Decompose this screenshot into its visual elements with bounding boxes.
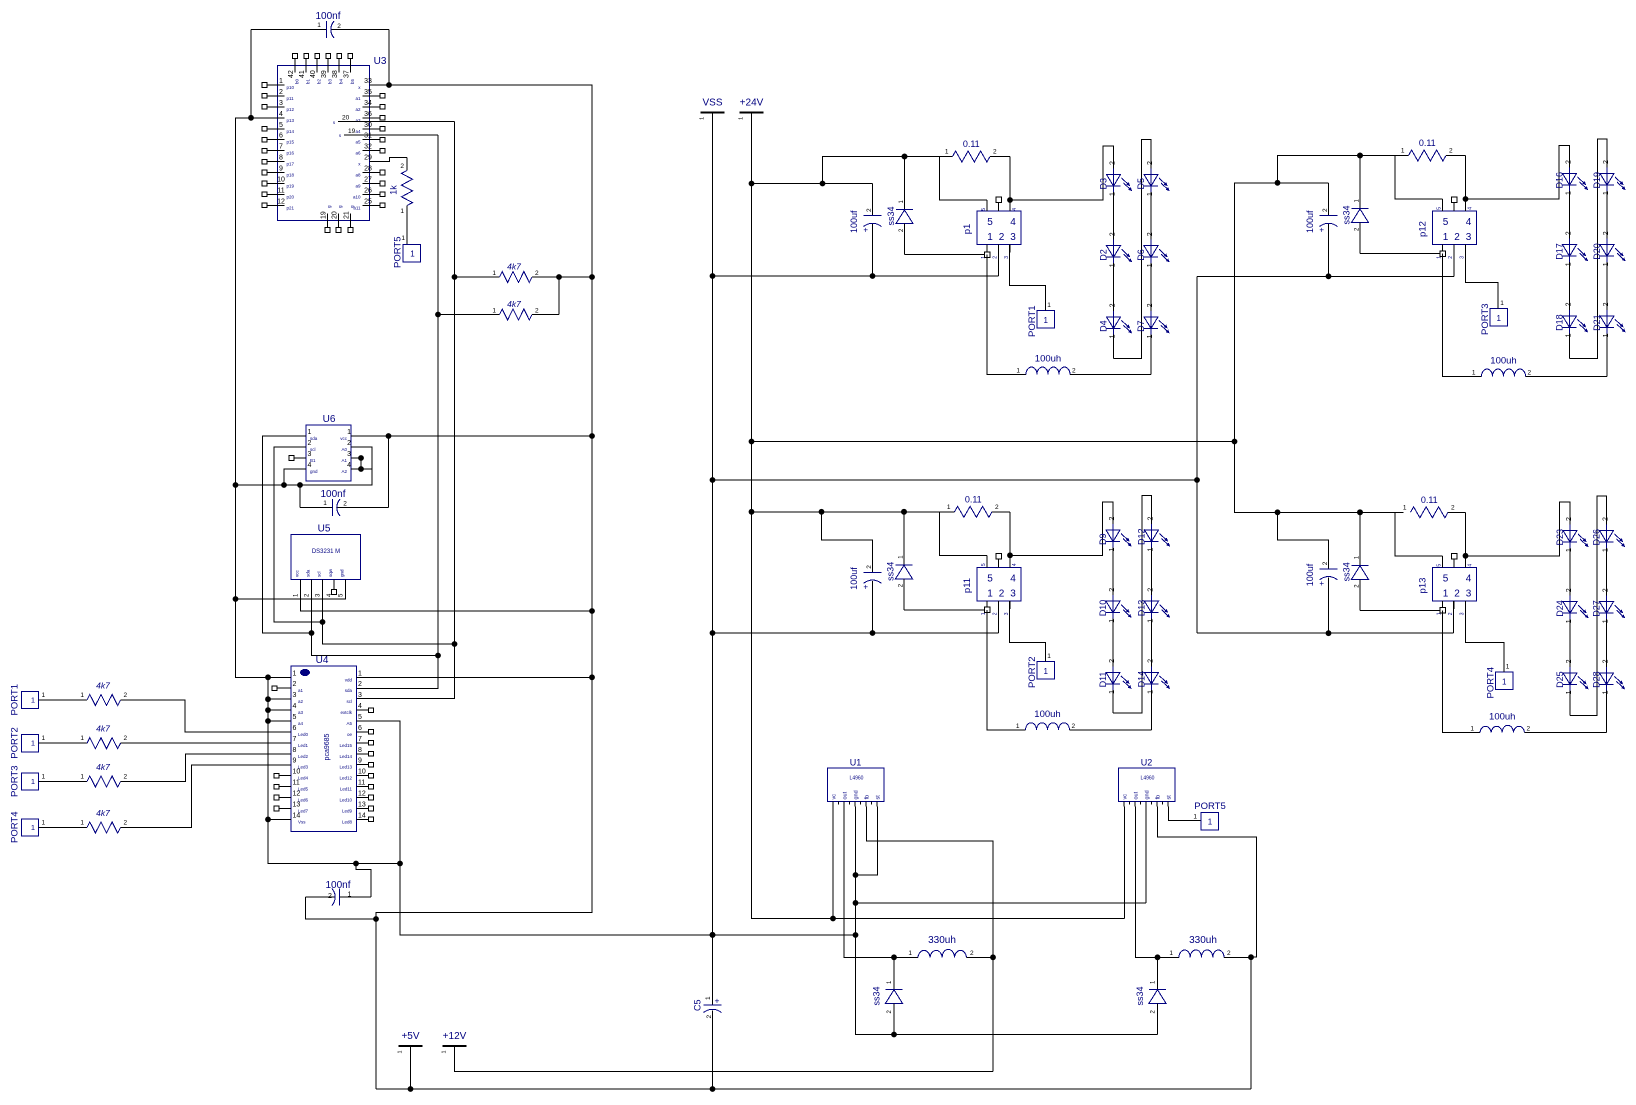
wire 0.11 output to pin4 node (p11) <box>1009 512 1011 556</box>
junction <box>710 1086 716 1092</box>
junction <box>853 932 859 938</box>
junction <box>710 932 716 938</box>
svg-text:D7: D7 <box>1136 320 1146 332</box>
junction <box>589 274 595 280</box>
p12 nc pin top <box>1453 203 1455 212</box>
svg-text:100uh: 100uh <box>1489 712 1515 723</box>
svg-text:1: 1 <box>1109 619 1116 623</box>
svg-text:D5: D5 <box>1136 178 1146 190</box>
svg-text:1: 1 <box>1147 334 1154 338</box>
inductor 330uh (U2) <box>1179 950 1224 957</box>
svg-text:ss34: ss34 <box>872 986 882 1005</box>
wire U3 pin4 / VSS-left vertical <box>236 118 278 678</box>
svg-text:Led12: Led12 <box>339 776 352 781</box>
wire U2 pin4 output <box>1158 807 1257 1090</box>
svg-text:1: 1 <box>1603 619 1610 623</box>
LED D18 <box>1569 310 1571 334</box>
p13 pin3 bottom stub <box>1465 601 1467 609</box>
svg-text:D6: D6 <box>1136 249 1146 261</box>
U4 pin 12 stub <box>279 797 291 799</box>
svg-text:1: 1 <box>1603 690 1610 694</box>
resistor 4k7 (PORT3) <box>87 776 121 787</box>
LED D21 <box>1606 310 1608 334</box>
svg-text:1: 1 <box>1193 814 1197 821</box>
U3 pin 12 <box>268 204 285 206</box>
junction <box>1194 477 1200 483</box>
regulator U1 box <box>828 768 885 802</box>
LED D6 <box>1150 240 1152 264</box>
svg-text:D28: D28 <box>1592 671 1602 688</box>
p1 pin4 top stub <box>1009 200 1011 211</box>
svg-text:fb: fb <box>1156 795 1162 800</box>
svg-text:2: 2 <box>706 1015 713 1019</box>
junction <box>265 674 271 680</box>
svg-text:a9: a9 <box>355 184 361 189</box>
U3 pin 4 <box>278 117 285 119</box>
U3 pin 40 <box>316 59 318 73</box>
svg-text:1: 1 <box>317 22 321 29</box>
svg-text:ss34: ss34 <box>1135 986 1145 1005</box>
port PORT1 (p1) <box>1037 311 1055 329</box>
svg-text:D11: D11 <box>1098 672 1108 688</box>
svg-text:1: 1 <box>1109 548 1116 552</box>
wire pin4 node to LED column1 (p13) <box>1466 502 1571 716</box>
U3 pin 39 <box>327 59 329 73</box>
junction <box>435 312 441 318</box>
U3 pin 9 <box>268 172 285 174</box>
svg-text:p13: p13 <box>287 118 295 123</box>
svg-text:out: out <box>1134 791 1140 799</box>
LED D26 <box>1606 525 1608 549</box>
svg-text:D21: D21 <box>1592 314 1602 331</box>
wire VSS vertical <box>712 112 714 998</box>
port PORT3 <box>22 773 39 790</box>
U4 pin 20 stub <box>357 764 369 766</box>
wire pin5 branch (p13) <box>1395 512 1443 556</box>
wire VSS line block3 <box>713 632 999 634</box>
svg-text:2: 2 <box>1603 517 1610 521</box>
svg-text:2: 2 <box>970 950 974 957</box>
U3 pin 25 <box>363 204 380 206</box>
svg-text:PORT1: PORT1 <box>10 684 21 716</box>
resistor 4k7 (PORT2) <box>87 738 121 749</box>
U3 pin 26 <box>363 193 380 195</box>
svg-text:+: + <box>863 582 868 591</box>
wire +24V feed block2 riser <box>1235 183 1329 442</box>
svg-text:2: 2 <box>995 504 999 511</box>
svg-text:PORT5: PORT5 <box>393 236 404 268</box>
svg-text:2: 2 <box>1566 588 1573 592</box>
svg-text:+: + <box>715 996 720 1006</box>
wire U2 pin3 gnd <box>1145 807 1147 903</box>
svg-text:1: 1 <box>410 250 415 259</box>
svg-text:10: 10 <box>293 769 301 776</box>
U4 pin 11 stub <box>279 786 291 788</box>
wire LED col1 bottom to col2 top (p1) <box>1114 140 1152 375</box>
capacitor 100nf (U4 bypass) <box>306 896 335 898</box>
svg-text:1: 1 <box>442 1050 448 1053</box>
wire ss34 to p1 pin1 <box>905 254 988 256</box>
U1 pin 3 <box>854 802 856 807</box>
p11 pin5 top stub <box>986 555 988 567</box>
svg-text:1: 1 <box>80 820 84 827</box>
svg-text:a8: a8 <box>355 173 361 178</box>
svg-text:p15: p15 <box>287 140 295 145</box>
svg-text:p21: p21 <box>287 205 295 210</box>
svg-text:3: 3 <box>1010 232 1016 243</box>
wire U6 pins A1-A2 tie <box>351 457 361 459</box>
svg-text:19: 19 <box>321 211 328 219</box>
svg-text:1: 1 <box>1208 818 1213 827</box>
junction <box>710 477 716 483</box>
svg-text:100nf: 100nf <box>320 489 345 500</box>
svg-text:D16: D16 <box>1555 172 1565 189</box>
capacitor 100nf (U3 bypass) <box>251 29 327 31</box>
svg-text:20: 20 <box>342 115 350 122</box>
svg-text:100uf: 100uf <box>849 567 859 590</box>
p11 pin2 bottom stub <box>998 601 1000 609</box>
svg-text:3: 3 <box>347 451 351 458</box>
svg-text:32: 32 <box>364 144 372 151</box>
svg-text:a5: a5 <box>355 140 361 145</box>
svg-text:2: 2 <box>1566 517 1573 521</box>
svg-text:D17: D17 <box>1555 243 1565 260</box>
svg-text:9: 9 <box>358 758 362 765</box>
wire U5 pin3 scl <box>323 585 455 645</box>
svg-text:100uh: 100uh <box>1035 353 1061 364</box>
svg-text:U1: U1 <box>850 758 862 768</box>
wire U6 ground rail <box>236 447 373 485</box>
svg-text:1: 1 <box>1566 262 1573 266</box>
junction <box>901 509 907 515</box>
svg-text:1: 1 <box>739 117 745 120</box>
U5 pin 4 <box>333 580 335 585</box>
svg-text:2: 2 <box>328 893 332 900</box>
svg-text:3: 3 <box>293 692 297 699</box>
junction <box>1007 197 1013 203</box>
svg-text:p14: p14 <box>287 129 295 134</box>
svg-text:1: 1 <box>1603 191 1610 195</box>
svg-text:1: 1 <box>1043 316 1048 325</box>
junction <box>902 154 908 160</box>
svg-text:1: 1 <box>1603 262 1610 266</box>
wire p12 pin1 to inductor <box>1443 254 1482 377</box>
svg-text:p10: p10 <box>287 85 295 90</box>
svg-text:+: + <box>863 226 868 235</box>
inductor 330uh (U1) <box>918 949 967 957</box>
wire pin5 branch (p1) <box>940 157 988 201</box>
svg-text:2: 2 <box>358 681 362 688</box>
p13 nc pin top <box>1453 559 1455 568</box>
wire U4 pin5 <box>268 720 291 722</box>
svg-text:1: 1 <box>1506 664 1510 671</box>
LED D28 <box>1606 667 1608 691</box>
wire pin4 node to LED column1 (p1) <box>1010 146 1114 359</box>
junction <box>710 630 716 636</box>
svg-text:PORT5: PORT5 <box>1194 801 1226 812</box>
svg-text:2: 2 <box>1603 231 1610 235</box>
wire p12 pin3 to PORT3 <box>1466 245 1499 309</box>
wire U4 pin3 <box>268 698 291 700</box>
U4 pin 15 stub <box>357 818 369 820</box>
wire 4k7 to U4 led input 3 <box>121 765 292 828</box>
port PORT4 <box>22 819 39 836</box>
wire ss34 to p11 pin1 <box>904 609 987 611</box>
U1 pin 1 <box>832 802 834 807</box>
junction <box>589 433 595 439</box>
svg-text:1k: 1k <box>389 185 399 195</box>
svg-text:14: 14 <box>293 812 301 819</box>
U4 pin 22 stub <box>357 742 369 744</box>
svg-text:5: 5 <box>279 122 283 129</box>
wire p11 pin3 to PORT2 <box>1010 601 1046 662</box>
svg-text:Led2: Led2 <box>298 754 309 759</box>
svg-text:2: 2 <box>1322 561 1329 565</box>
wire p1 pin2 to VSS <box>998 245 1000 277</box>
svg-text:Led14: Led14 <box>339 754 352 759</box>
svg-text:40: 40 <box>310 70 317 78</box>
svg-text:U2: U2 <box>1141 758 1153 768</box>
svg-text:7: 7 <box>358 736 362 743</box>
svg-text:extclk: extclk <box>340 710 352 715</box>
svg-text:ss34: ss34 <box>886 562 896 581</box>
svg-text:5: 5 <box>1437 207 1443 210</box>
junction <box>397 861 403 867</box>
svg-text:5: 5 <box>981 563 987 566</box>
svg-text:2: 2 <box>337 23 341 30</box>
svg-text:2: 2 <box>1603 588 1610 592</box>
U3 pin 42 <box>294 59 296 73</box>
p1 pin3 bottom stub <box>1009 245 1011 253</box>
svg-text:10: 10 <box>277 177 285 184</box>
junction <box>853 900 859 906</box>
svg-text:1: 1 <box>31 739 35 748</box>
svg-text:4k7: 4k7 <box>507 299 521 309</box>
resistor 4k7 (SCL pullup) <box>455 276 500 278</box>
svg-text:35: 35 <box>364 89 372 96</box>
wire U6 pin4 gnd <box>284 469 306 485</box>
svg-text:4k7: 4k7 <box>96 808 110 818</box>
diode ss34 (U1) <box>893 957 895 989</box>
svg-text:PORT4: PORT4 <box>1486 667 1497 699</box>
svg-text:D14: D14 <box>1137 671 1147 688</box>
wire inductor return (p1) <box>1070 373 1151 375</box>
svg-text:1: 1 <box>1566 333 1573 337</box>
svg-text:2: 2 <box>535 270 539 277</box>
svg-text:7: 7 <box>279 144 283 151</box>
U2 pin 5 <box>1167 802 1169 807</box>
svg-text:2: 2 <box>308 440 312 447</box>
svg-text:3: 3 <box>1466 232 1472 243</box>
U3 pin 35 <box>363 95 380 97</box>
U2 pin 1 <box>1123 802 1125 807</box>
svg-text:p20: p20 <box>287 194 295 199</box>
U3 pin 21 (bottom) <box>350 214 352 228</box>
junction <box>320 619 326 625</box>
U5 pin4 stub <box>333 580 335 590</box>
capacitor 100uf (block4) <box>1278 512 1329 569</box>
svg-text:1: 1 <box>1148 690 1155 694</box>
wire PORT2 to 4k7 <box>39 742 88 744</box>
svg-text:2: 2 <box>1322 208 1329 212</box>
U3 pin 8 <box>268 161 285 163</box>
wire U4 pin4 <box>268 709 291 711</box>
svg-text:1: 1 <box>31 823 35 832</box>
p1 nc pin top <box>998 203 1000 212</box>
svg-text:1: 1 <box>80 774 84 781</box>
svg-text:19: 19 <box>348 128 356 135</box>
svg-text:A5: A5 <box>346 721 352 726</box>
svg-text:1: 1 <box>1566 690 1573 694</box>
svg-text:5: 5 <box>1443 217 1449 228</box>
wire VSS line block1 <box>713 275 999 277</box>
svg-text:1: 1 <box>31 696 35 705</box>
svg-text:a2: a2 <box>298 699 304 704</box>
U3 pin 31 <box>363 139 380 141</box>
svg-text:1: 1 <box>947 504 951 511</box>
svg-text:1: 1 <box>1148 619 1155 623</box>
U3 pin 32 <box>363 150 380 152</box>
svg-text:2: 2 <box>1454 589 1460 600</box>
svg-text:1: 1 <box>279 78 283 85</box>
svg-text:2: 2 <box>1148 588 1155 592</box>
svg-text:4: 4 <box>347 462 351 469</box>
svg-text:b5: b5 <box>350 78 355 84</box>
LED D5 <box>1150 169 1152 193</box>
svg-text:6: 6 <box>279 133 283 140</box>
svg-text:a2: a2 <box>355 107 361 112</box>
resistor 4k7 (SDA pullup) <box>438 314 500 316</box>
svg-text:1: 1 <box>1470 726 1474 733</box>
junction <box>281 482 287 488</box>
svg-text:4k7: 4k7 <box>96 724 110 734</box>
svg-text:a6: a6 <box>355 151 361 156</box>
svg-text:st: st <box>1167 795 1173 800</box>
svg-text:2: 2 <box>1072 723 1076 730</box>
U5 pin 5 <box>345 580 347 585</box>
junction <box>1275 509 1281 515</box>
junction <box>1232 439 1238 445</box>
svg-text:6: 6 <box>358 725 362 732</box>
wire p12 pin2 to VSS <box>1453 245 1455 277</box>
svg-text:+24V: +24V <box>740 97 764 108</box>
svg-text:1: 1 <box>1043 667 1048 676</box>
wire U6 pin2 scl <box>274 447 323 622</box>
port PORT3 (p12) <box>1490 309 1508 327</box>
wire VSS line block2 <box>1197 275 1454 277</box>
wire +24V feed block4 riser <box>1235 442 1404 513</box>
svg-text:100uf: 100uf <box>1305 563 1315 586</box>
wire 100nf-2 to U6 vcc <box>388 436 390 508</box>
svg-text:+5V: +5V <box>401 1031 419 1042</box>
svg-text:34: 34 <box>364 100 372 107</box>
svg-text:2: 2 <box>1148 659 1155 663</box>
svg-text:9: 9 <box>293 758 297 765</box>
U4 pin 23 stub <box>357 731 369 733</box>
svg-text:2: 2 <box>1527 726 1531 733</box>
svg-text:+: + <box>1319 226 1324 235</box>
svg-text:42: 42 <box>288 70 295 78</box>
junction <box>901 509 907 515</box>
svg-text:U4: U4 <box>316 655 329 666</box>
svg-text:3: 3 <box>1460 612 1466 615</box>
junction <box>710 932 716 938</box>
LED D10 <box>1112 595 1114 619</box>
svg-text:13: 13 <box>293 802 301 809</box>
wire pin5 branch (p11) <box>940 512 988 556</box>
wire U1 pin4 output <box>867 807 994 1072</box>
svg-text:p12: p12 <box>287 107 295 112</box>
svg-text:25: 25 <box>364 198 372 205</box>
svg-text:2: 2 <box>343 501 347 508</box>
svg-text:20: 20 <box>332 211 339 219</box>
junction <box>233 482 239 488</box>
U4 pin 16 stub <box>357 808 369 810</box>
p13 pin4 top stub <box>1465 556 1467 568</box>
svg-text:D26: D26 <box>1592 529 1602 546</box>
svg-text:1: 1 <box>1603 333 1610 337</box>
U3 pin 34 <box>363 106 380 108</box>
svg-text:b4: b4 <box>339 78 344 84</box>
svg-text:U6: U6 <box>323 414 336 425</box>
U6 io-expander box <box>306 425 351 481</box>
svg-text:2: 2 <box>1603 160 1610 164</box>
svg-text:1: 1 <box>31 777 35 786</box>
svg-text:1: 1 <box>1148 548 1155 552</box>
wire LED col1 bottom to col2 top (p13) <box>1570 496 1607 733</box>
svg-text:scl: scl <box>347 699 353 704</box>
svg-text:100uh: 100uh <box>1490 355 1516 366</box>
svg-text:3: 3 <box>1460 256 1466 259</box>
svg-text:Led10: Led10 <box>339 798 352 803</box>
wire 0.11 output to pin4 node (p1) <box>1009 157 1011 201</box>
svg-text:2: 2 <box>1603 302 1610 306</box>
U3 pin 19 wire (SDA) <box>344 134 438 136</box>
port PORT1 <box>22 691 39 708</box>
svg-text:2: 2 <box>293 681 297 688</box>
svg-text:27: 27 <box>364 177 372 184</box>
svg-text:1: 1 <box>42 774 46 781</box>
svg-text:vcc: vcc <box>295 570 300 578</box>
svg-text:fb: fb <box>865 795 871 800</box>
U1 pin 5 <box>876 802 878 807</box>
U4 pca9685 box <box>291 666 357 832</box>
svg-text:D23: D23 <box>1555 529 1565 546</box>
svg-text:1: 1 <box>1566 191 1573 195</box>
LED D20 <box>1606 239 1608 263</box>
svg-text:3: 3 <box>308 451 312 458</box>
port PORT2 (p11) <box>1037 662 1055 680</box>
wire p13 pin3 to PORT4 <box>1466 601 1505 672</box>
wire U5 pin5 gnd <box>236 585 346 600</box>
svg-text:12: 12 <box>293 791 301 798</box>
svg-text:C5: C5 <box>693 999 703 1011</box>
LED D23 <box>1569 525 1571 549</box>
svg-text:p12: p12 <box>1418 221 1429 237</box>
junction <box>749 439 755 445</box>
junction <box>1275 180 1281 186</box>
svg-text:330uh: 330uh <box>928 935 956 946</box>
svg-text:2: 2 <box>1148 517 1155 521</box>
svg-text:1: 1 <box>1472 369 1476 376</box>
svg-text:1: 1 <box>1603 548 1610 552</box>
LED D17 <box>1569 239 1571 263</box>
svg-text:1: 1 <box>42 735 46 742</box>
capacitor 100uf (p12) <box>1328 183 1330 216</box>
junction <box>1357 509 1363 515</box>
svg-text:gnd: gnd <box>1145 790 1151 799</box>
U3 pin 19 (bottom) <box>327 214 329 228</box>
